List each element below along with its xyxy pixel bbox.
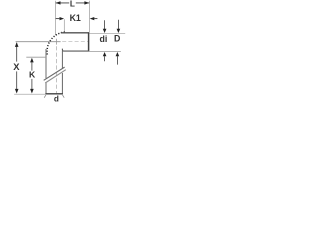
diameter D bottom arrow (116, 52, 120, 56)
diameter d tick left (44, 95, 46, 98)
dimension K1 extension line (63, 19, 65, 32)
socket bore extension line top (89, 32, 125, 34)
socket top edge (61, 32, 89, 34)
diameter D bottom leader (116, 56, 118, 65)
dimension K arrow bottom (30, 89, 34, 94)
dimension L arrow right (84, 1, 89, 4)
svg-text:d: d (54, 95, 59, 102)
extension line left (fitting left tangent) (54, 1, 56, 35)
dimension K1 arrow left (60, 17, 65, 20)
pipe break line lower (45, 70, 66, 83)
dimension L arrow left (56, 1, 61, 4)
dimension X arrow top (15, 42, 19, 47)
svg-text:K: K (29, 70, 36, 80)
pipe right edge upper (61, 51, 63, 69)
dimension K1 arrow right (90, 17, 95, 20)
pipe break line upper (44, 67, 65, 80)
dimension K line upper (31, 62, 33, 70)
pipe left edge lower (45, 82, 47, 93)
extension line right (socket end) (89, 1, 91, 33)
svg-text:X: X (13, 61, 20, 72)
dimension X line upper (16, 43, 18, 62)
elbow outer heel arc (dotted) (47, 32, 66, 55)
vertical pipe centerline (55, 46, 57, 93)
axis cross vertical arm (55, 39, 57, 45)
pipe end extension line (14, 93, 45, 95)
svg-text:di: di (99, 34, 107, 44)
pipe right edge lower (61, 73, 63, 94)
socket end face (88, 32, 90, 51)
dimension L line (56, 2, 89, 4)
socket outer extension line bottom (89, 51, 121, 53)
diameter di top arrow (103, 29, 107, 33)
svg-text:L: L (70, 0, 75, 9)
dimension K1 left leader (56, 18, 60, 20)
dimension K arrow top (30, 58, 34, 63)
dimension X line lower (16, 71, 18, 89)
diameter D top leader (117, 20, 119, 29)
diameter d tick right (63, 95, 65, 98)
horizontal axis extension line (16, 41, 61, 43)
diameter di bottom leader (104, 56, 106, 61)
svg-text:D: D (114, 34, 120, 44)
spigot end extension line (26, 56, 46, 58)
diameter di bottom arrow (103, 52, 107, 56)
diameter D top arrow (117, 29, 121, 33)
svg-text:K1: K1 (70, 13, 81, 23)
pipe left edge upper (45, 49, 47, 78)
dimension X arrow bottom (15, 89, 19, 94)
pipe bottom end face (45, 93, 63, 95)
horizontal axis centerline dashes (62, 41, 89, 43)
socket bottom edge with throat fillet (62, 49, 89, 51)
dimension K line lower (31, 79, 33, 90)
dimension K1 right leader (94, 18, 97, 20)
diameter di top leader (104, 20, 106, 29)
